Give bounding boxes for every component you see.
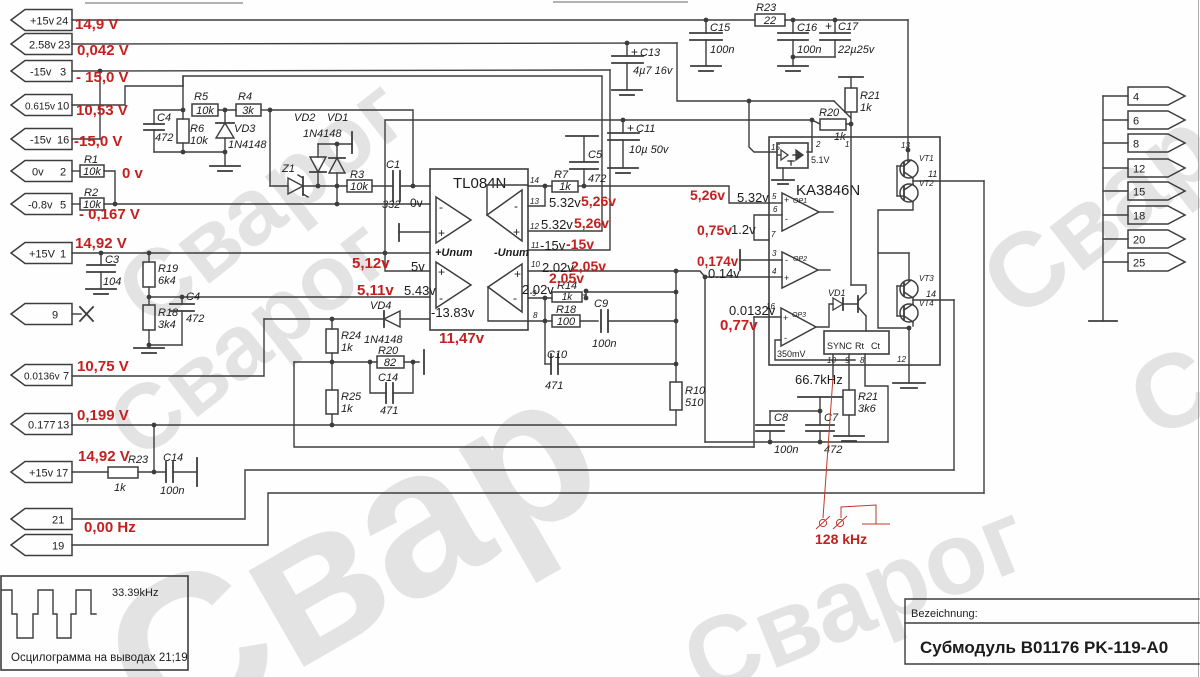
svg-text:11: 11 [928,169,937,179]
svg-text:Bezeichnung:: Bezeichnung: [911,608,978,620]
wire VT3/VT4 junction to pin 14 [913,289,954,304]
svg-text:+: + [513,225,520,239]
wire R14 right to feedback bus [586,291,676,293]
U2 pin 16 wire [754,316,781,318]
wire pin 16 sense bus riser [753,317,755,447]
svg-text:471: 471 [545,380,563,392]
op-amp U1.4 [488,264,528,321]
capacitor C17 (polarized) [820,18,876,57]
svg-text:100n: 100n [774,444,798,456]
svg-text:3: 3 [772,249,777,258]
wire R7/C5 node to KA pin 5 [584,186,769,203]
diode VD4 (1N4148) [364,300,403,346]
wire -15v rail pins 3/16 [72,69,610,139]
svg-text:2.58v: 2.58v [29,40,56,52]
resistor R10 (510) [670,382,706,425]
svg-text:10k: 10k [83,166,101,178]
svg-text:R24: R24 [341,330,361,342]
capacitor C3 (104) [87,251,121,289]
connector pin 5 [11,194,72,215]
svg-text:4: 4 [772,267,777,276]
wire VT1/VT2 junction to pin 11 [913,169,984,184]
IC U2 KA3846N body [769,137,940,365]
svg-text:R6: R6 [190,123,205,135]
svg-text:0,75v: 0,75v [697,222,732,238]
capacitor C15 [690,18,734,66]
wire -15v rail down to TL084 pin 11 [528,70,610,250]
ground under R21 [834,436,864,441]
ground under C3 [86,289,116,294]
node VD1 on 0v line [335,202,340,207]
wire pin 21 net [72,470,954,519]
svg-text:R7: R7 [554,169,569,181]
svg-text:Субмодуль B01176 PK-119-A0: Субмодуль B01176 PK-119-A0 [920,638,1168,657]
svg-text:5.32v: 5.32v [541,217,573,232]
wire pin13 to pin14 node [528,186,545,206]
svg-text:Z1: Z1 [281,163,295,175]
svg-text:VD2: VD2 [294,112,315,124]
svg-text:+: + [825,19,832,33]
svg-text:2,05v: 2,05v [549,270,584,286]
wire diagonal into R20/R21 node [834,101,851,118]
svg-text:1.2v: 1.2v [731,222,756,237]
svg-text:5.32v: 5.32v [737,190,769,205]
svg-text:R10: R10 [685,385,706,397]
svg-text:5,11v: 5,11v [357,282,394,299]
svg-text:R1: R1 [84,154,98,166]
resistor R23 (22) in series on +15v rail [755,2,785,27]
oscillogram waveform [2,590,96,638]
svg-text:5.32v: 5.32v [549,195,581,210]
ground under reference block [772,168,794,184]
svg-text:4µ7 16v: 4µ7 16v [633,65,674,77]
svg-text:23: 23 [58,40,70,52]
connector pin 24 [11,10,72,31]
capacitor C7 (472) [806,411,842,456]
svg-text:R4: R4 [238,91,252,103]
svg-text:25: 25 [1133,258,1145,270]
wire drop to Ct bus [704,277,706,442]
resistor R21 (3k6) [843,390,878,436]
svg-text:8: 8 [533,311,538,320]
svg-text:-: - [785,255,788,265]
terminal bar after C14 [196,458,198,486]
svg-text:82: 82 [384,357,396,369]
svg-text:R23: R23 [128,454,149,466]
connector pin 9 [11,304,72,325]
svg-text:TL084N: TL084N [453,175,506,192]
capacitor C4 (472) beside R18 [170,291,204,345]
svg-text:+: + [438,265,445,279]
svg-text:7: 7 [771,230,776,239]
svg-text:0,042 V: 0,042 V [77,42,129,59]
capacitor C9 (100n) [592,298,676,350]
terminal bar at U1.1 + input [399,224,430,241]
svg-text:100n: 100n [160,485,184,497]
svg-text:14,92 V: 14,92 V [75,235,127,252]
svg-text:0.0136v: 0.0136v [24,372,60,383]
wire 5.43v row from R19/R18 divider [149,296,430,298]
svg-text:17: 17 [56,468,68,480]
wire U1 pin8 row [528,320,552,322]
node C1 right [411,184,416,189]
svg-text:OP2: OP2 [793,256,807,263]
svg-text:472: 472 [186,313,204,325]
wire +15v rail to pin 13 of U2 [785,19,908,21]
capacitor C14 (471) parallel R20 [370,362,413,417]
wire rail from pin 23 [72,43,677,44]
svg-text:100n: 100n [592,338,616,350]
U2 pin 6/7 loop [754,205,782,240]
svg-text:9: 9 [52,310,58,322]
wire Z1 to VD nodes [303,185,347,187]
svg-text:C5: C5 [588,149,603,161]
svg-text:1k: 1k [559,181,571,193]
svg-text:C1: C1 [386,159,400,171]
svg-text:2: 2 [815,140,821,149]
bottom node of C4/R6 [154,150,227,155]
SYNC Rt Ct block [824,331,889,354]
svg-text:R20: R20 [378,345,399,357]
op-amp U1.3 [436,262,471,308]
wire R1 to 0v node [104,171,115,204]
wire sense bus down-left [294,362,754,447]
wire C4 bottom to R18 bottom [147,343,182,348]
terminal bar after R20 [423,350,425,374]
connector pin 17 [11,462,72,483]
svg-text:22µ25v: 22µ25v [837,44,876,56]
svg-text:4: 4 [1133,92,1139,104]
wire SYNC pin 10 stub [832,354,834,377]
svg-text:R2: R2 [84,187,98,199]
resistor R18 (100) [552,304,598,328]
svg-text:+15V: +15V [29,249,56,261]
svg-text:100n: 100n [710,44,734,56]
svg-text:-Unum: -Unum [494,247,529,259]
capacitor C16 [778,18,821,66]
feedback bus vertical [675,271,677,382]
connector pin 4 [1103,87,1185,105]
connector pin 13 [11,414,72,435]
wire pin23 net corner down [677,43,834,101]
wire VT bases tie [897,166,904,196]
svg-text:13: 13 [530,197,539,206]
svg-text:-: - [784,333,787,343]
svg-text:1: 1 [60,249,66,261]
wire pin 10 net upper run [183,76,602,231]
svg-text:0v: 0v [32,167,44,179]
svg-text:10: 10 [57,101,69,113]
svg-text:C11: C11 [636,123,655,135]
capacitor C13 (polarized 4u7 16v) [612,41,674,90]
svg-text:19: 19 [52,541,64,553]
svg-text:5v: 5v [411,259,425,274]
TL084 pin numbers [530,176,540,320]
connector pin 18 [1103,206,1185,224]
svg-text:+: + [783,313,788,323]
svg-text:OP1: OP1 [793,198,807,205]
svg-text:5: 5 [60,200,66,212]
svg-text:C8: C8 [774,412,789,424]
svg-text:14,92 V: 14,92 V [78,448,130,465]
resistor R4 (3k) [236,91,261,117]
svg-text:C14: C14 [163,452,183,464]
svg-text:C4: C4 [186,291,200,303]
svg-text:1N4148: 1N4148 [303,128,342,140]
svg-text:6: 6 [773,205,778,214]
svg-text:C4: C4 [157,112,171,124]
svg-text:10k: 10k [350,181,368,193]
svg-text:2: 2 [60,167,66,179]
transistor VT3 [900,274,934,298]
svg-text:3k6: 3k6 [858,403,877,415]
svg-text:66.7kHz: 66.7kHz [795,372,843,387]
svg-text:-: - [439,291,443,305]
svg-text:+: + [514,267,521,281]
wire C11 net node [812,120,820,124]
svg-text:6: 6 [1133,116,1139,128]
svg-text:14,9 V: 14,9 V [75,16,118,33]
svg-text:21: 21 [52,515,64,527]
svg-text:- 0,167 V: - 0,167 V [79,206,140,223]
wire 0v net to TL084 [104,202,430,207]
resistor R5 (10k) [192,91,218,117]
ground under VD3 [210,166,240,171]
capacitor C8 (100n) [756,411,798,456]
resistor R3 (10k) [347,169,372,193]
svg-text:R23: R23 [756,2,777,14]
bus ground bar [1089,320,1117,322]
wire pin 10 net [72,86,183,105]
wire pin9/pin8 tie [544,298,546,321]
svg-text:VT3: VT3 [919,274,934,283]
svg-text:Осцилограмма на выводах 21;19: Осцилограмма на выводах 21;19 [11,652,188,664]
wire pin 7 net [72,319,264,376]
svg-text:1: 1 [845,140,849,149]
svg-text:20: 20 [1133,235,1145,247]
wire vertical +15v to KA pin 13 [907,20,909,150]
ground under C15 [691,66,721,71]
svg-text:C3: C3 [105,254,120,266]
svg-text:5,26v: 5,26v [574,215,609,231]
svg-text:14: 14 [530,176,539,185]
node riser 5v row [383,251,388,256]
wire U1 pin10 row (2.02v) [528,271,769,277]
wire C17 bottom to C16 bottom [793,56,835,58]
wire L1 R4 node to C1 node [270,110,413,186]
svg-text:0,199 V: 0,199 V [77,407,129,424]
connector pin 12 [1103,159,1185,177]
U2 pin numbers top [771,140,910,152]
wire VD4 row [264,318,384,320]
svg-text:5.43v: 5.43v [404,283,436,298]
op-amp U1 TL084N body [430,169,528,330]
svg-text:472: 472 [824,444,842,456]
resistor R21 (1k) vertical top right [839,77,880,137]
svg-text:12: 12 [1133,164,1145,176]
diode VD2 [294,112,326,186]
resistor R1 (10k) [72,154,104,178]
svg-text:C9: C9 [594,298,608,310]
svg-text:1k: 1k [341,403,353,415]
wire U1 pin9 row [528,297,552,299]
svg-text:10k: 10k [196,105,214,117]
connector pin 6 [1103,111,1185,129]
capacitor C14 (100n) lower left [138,452,197,497]
node divider [147,295,152,300]
ground under R18 [134,348,164,353]
svg-text:VD3: VD3 [234,123,256,135]
svg-text:-13.83v: -13.83v [431,305,475,320]
node VT4 emitter [907,322,913,330]
svg-text:5.1V: 5.1V [811,155,830,165]
internal transistor [851,285,866,331]
svg-text:104: 104 [103,276,121,288]
svg-text:2.02v: 2.02v [522,282,554,297]
resistor R18 (3k4) [143,305,179,348]
svg-text:100n: 100n [797,44,821,56]
svg-text:-: - [785,214,788,224]
svg-text:C14: C14 [378,372,398,384]
U2 pin 4 stub [769,267,782,277]
resistor R25 (1k) [326,390,362,427]
svg-text:R21: R21 [860,90,880,102]
node R4 right [261,108,272,113]
svg-text:33.39kHz: 33.39kHz [112,587,158,599]
svg-text:12: 12 [530,222,539,231]
capacitor C5 (472) [566,136,606,186]
resistor R20 (1k) horizontal [819,107,853,143]
svg-text:10µ 50v: 10µ 50v [629,144,670,156]
wire pin 19 net [72,493,984,545]
svg-text:10,75 V: 10,75 V [77,358,129,375]
wire pin 12 to ground [893,328,925,388]
svg-text:1k: 1k [341,342,353,354]
right connector bus [1102,96,1104,321]
svg-text:R19: R19 [158,263,178,275]
svg-text:1N4148: 1N4148 [228,139,267,151]
title block Bezeichnung [905,599,1199,664]
node R20 left on C11 net [810,118,815,123]
svg-text:+: + [784,273,789,283]
connector pin 25 [1103,253,1185,271]
svg-text:0,00 Hz: 0,00 Hz [84,519,136,536]
oscillogram box [1,576,188,670]
wire VD top bar terminal [318,132,352,153]
pin 9 X mark [72,307,93,321]
wire R20-left down to KA pin 2 [807,120,812,152]
connector pin 15 [1103,182,1185,200]
svg-text:C15: C15 [710,22,731,34]
node R5/R4 [218,108,236,113]
svg-text:R18: R18 [556,304,577,316]
svg-text:R5: R5 [194,91,209,103]
connector pin 21 [11,509,72,530]
svg-text:12: 12 [897,355,906,364]
svg-text:-: - [439,200,443,214]
svg-text:+: + [438,226,445,240]
wire VT3/VT4 bases tie [897,286,904,316]
svg-text:+15v: +15v [29,468,54,480]
wire pin 11 to pin 19 bus [983,181,985,493]
svg-text:+Unum: +Unum [435,247,473,259]
capacitor C4 (472) [144,110,183,152]
svg-text:16: 16 [766,302,775,311]
wire VD4 row into U1 [400,318,430,320]
svg-text:-15,0 V: -15,0 V [74,133,122,150]
op-amp U1.1 [436,197,471,243]
wire U1 +Unum from pin 1 (+15V) [72,252,430,254]
resistor R7 (1k) [552,169,586,193]
connector pin 10 [11,95,72,116]
wire Ct bottom bus [705,441,888,443]
connector pin 1 [11,243,72,264]
svg-text:VD1: VD1 [828,288,846,298]
op-amp U2.OP1 [782,193,833,231]
svg-text:VT1: VT1 [919,154,934,163]
svg-text:R25: R25 [341,391,362,403]
reference block 5.1V [777,143,830,168]
svg-text:C13: C13 [640,47,661,59]
U2 pin 5 stub [769,192,782,203]
svg-text:471: 471 [380,405,398,417]
resistor R24 (1k) [326,319,361,390]
ground under C16 [778,66,808,71]
wire pin 13 net long [72,424,676,426]
U2 pins 10 9 8 labels [827,355,906,365]
transistor VT1 [900,148,934,178]
svg-text:6k4: 6k4 [158,275,176,287]
svg-text:0,77v: 0,77v [720,317,758,334]
op-amp U2.OP3 [781,308,816,346]
svg-text:350mV: 350mV [777,349,806,359]
svg-text:- 15,0 V: - 15,0 V [76,69,129,86]
svg-text:0.14v: 0.14v [708,266,740,281]
svg-text:11: 11 [531,241,539,250]
wire +15v rail from pin 24 [72,19,755,21]
wire VT2 emitter jog to VT3 [878,202,913,328]
resistor R20 (82) [377,345,419,369]
svg-text:-15v: -15v [566,236,594,252]
svg-text:-15v: -15v [30,67,52,79]
wire Rt pin 9 to R21 [848,354,850,390]
svg-text:510: 510 [685,397,704,409]
svg-text:1k: 1k [860,102,872,114]
svg-text:128 kHz: 128 kHz [815,531,867,547]
svg-text:-: - [513,291,517,305]
svg-text:15: 15 [1133,187,1145,199]
connector pin 3 [11,61,72,82]
svg-text:14: 14 [926,289,936,299]
connector pin 16 [11,129,72,150]
transistor VT4 [900,299,934,322]
wire riser pin17 node to pin13 net [153,425,155,472]
red probe sketch [815,377,890,547]
wire pin 15 entry [749,101,777,152]
wire C8/C7 tops [770,397,842,413]
resistor R19 (6k4) [143,251,178,305]
svg-text:10: 10 [827,356,836,365]
resistor R23 (1k) lower left [72,454,149,494]
svg-text:1k: 1k [562,292,574,303]
svg-text:Rt: Rt [855,341,864,351]
svg-text:5,12v: 5,12v [352,255,390,272]
svg-text:C16: C16 [797,22,818,34]
svg-text:+: + [631,45,638,59]
capacitor C10 (471) [545,321,676,392]
resistor R6 (10k) vertical [177,110,208,152]
svg-text:11,47v: 11,47v [439,330,485,347]
